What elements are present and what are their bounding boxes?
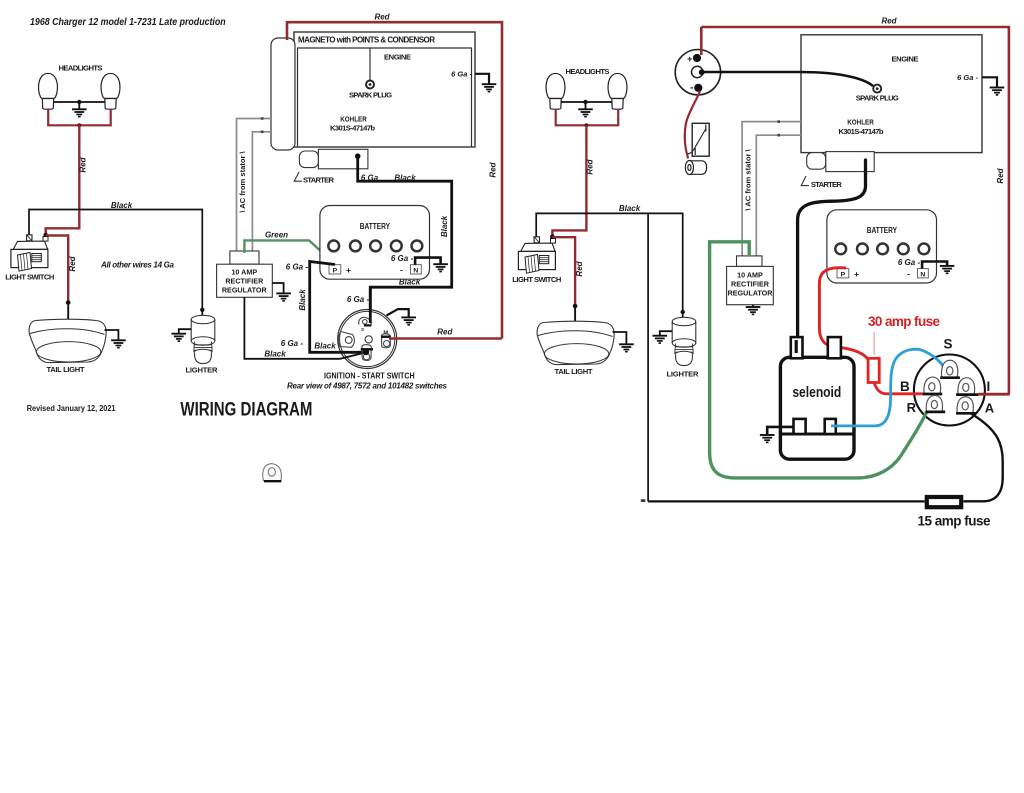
svg-text:6 Ga -: 6 Ga - [347,295,370,304]
wire red light switch to tail light [46,236,68,303]
svg-text:\ AC from stator \: \ AC from stator \ [744,148,753,210]
wire green stator to battery [244,240,334,263]
ground ignition top right [387,309,409,317]
node light switch red terminal [43,233,48,238]
ground rectifier right [752,305,754,307]
headlight bulb left right-diagram [546,73,565,109]
svg-text:\ AC from stator \: \ AC from stator \ [238,150,247,212]
key switch S terminal [942,360,958,377]
svg-text:6 Ga -: 6 Ga - [281,339,304,348]
svg-text:6 Ga: 6 Ga [361,174,379,183]
svg-text:STARTER: STARTER [303,176,335,185]
node stator dots [261,117,264,120]
svg-text:Revised January 12, 2021: Revised January 12, 2021 [27,403,116,413]
ground solenoid [767,427,793,434]
svg-text:6 Ga -: 6 Ga - [451,69,472,78]
svg-text:Red: Red [586,158,595,174]
ignition switch circle [338,310,397,369]
battery N terminal [410,265,421,274]
svg-text:Red: Red [79,156,88,172]
key switch I terminal [958,378,975,395]
wire red light switch to tail light right [552,237,575,305]
spark plug symbol [366,81,374,89]
wire battery N ground [415,258,441,265]
starter pointer tick [294,172,302,181]
svg-text:TAIL LIGHT: TAIL LIGHT [47,365,85,374]
node starter wire [355,153,361,159]
light switch body right [518,237,555,273]
tail light body right [537,321,614,364]
wire red top right-diagram [701,27,1009,394]
node red junction right [584,123,588,127]
headlight bulb right right-diagram [608,73,627,109]
battery P terminal [329,265,341,274]
svg-text:Red: Red [374,13,390,22]
wire red headlight loop [48,109,110,126]
svg-text:SPARK PLUG: SPARK PLUG [856,93,899,102]
svg-text:Black: Black [394,174,416,183]
ground headlights [78,102,80,109]
wire green end at R [902,412,927,454]
svg-text:WIRING DIAGRAM: WIRING DIAGRAM [180,398,312,420]
svg-text:6 Ga -: 6 Ga - [391,254,414,263]
ground engine right [475,74,489,84]
ignition S terminal [359,317,371,324]
solenoid bottom tab right [825,419,836,434]
ground lighter [179,329,191,333]
key switch circle [914,355,985,426]
svg-text:Red: Red [575,260,584,276]
svg-text:STARTER: STARTER [811,180,843,189]
tail light body [29,319,106,362]
key switch R terminal [926,395,942,411]
node tail light wire junction [66,300,71,305]
svg-text:selenoid: selenoid [792,384,841,400]
ammeter center hole [692,66,703,77]
svg-text:A: A [985,401,995,416]
wire black 6ga into S [369,287,372,323]
key switch A terminal [957,397,973,413]
light switch body [11,235,48,271]
svg-text:IGNITION - START SWITCH: IGNITION - START SWITCH [324,371,415,381]
svg-text:MAGNETO with POINTS & CONDENSO: MAGNETO with POINTS & CONDENSOR [298,35,435,44]
svg-text:ENGINE: ENGINE [892,55,919,64]
wire black 6ga engine to ignition S [358,156,452,317]
solenoid post left [791,337,803,358]
headlight bulb left [39,73,58,109]
svg-text:HEADLIGHTS: HEADLIGHTS [59,63,103,72]
svg-text:1968 Charger 12 model 1-7231 L: 1968 Charger 12 model 1-7231 Late produc… [30,16,226,28]
node red junction [77,123,81,127]
svg-text:LIGHT SWITCH: LIGHT SWITCH [512,275,561,284]
svg-text:N: N [413,268,418,275]
svg-text:Rear view of 4987, 7572 and 10: Rear view of 4987, 7572 and 101482 switc… [287,381,448,390]
svg-text:P: P [333,268,338,275]
wire black rectifier to ignition B [244,297,366,359]
svg-text:I: I [987,379,991,394]
starter box [318,149,368,169]
rectifier regulator box [217,264,273,297]
svg-text:Black: Black [298,289,307,311]
svg-text:K301S-47147b: K301S-47147b [839,127,884,136]
ground rectifier [272,283,283,293]
starter box right [826,152,874,172]
wire lighter feed right [682,312,684,317]
battery cell circles [328,241,422,252]
node headlight ground junction [77,100,81,104]
svg-text:B: B [900,379,910,394]
starter pointer tick right [801,176,809,186]
ignition B terminal [362,345,371,361]
svg-text:S: S [361,327,364,332]
svg-text:S: S [943,337,952,352]
node headlight ground junction right [583,100,587,104]
node light switch red terminal right [550,234,555,239]
svg-text:30 amp fuse: 30 amp fuse [868,314,940,329]
svg-text:Red: Red [881,17,897,26]
svg-text:BATTERY: BATTERY [867,225,897,235]
fuse holder cylinder [685,161,706,175]
wire red headlight loop right [556,109,619,126]
lighter body right [672,317,696,365]
svg-text:Black: Black [440,215,449,237]
svg-text:6 Ga -: 6 Ga - [957,73,978,82]
svg-text:10 AMP: 10 AMP [737,271,763,280]
wire red feed into ammeter [700,27,703,55]
rectifier cap [230,251,259,264]
svg-text:REGULATOR: REGULATOR [222,286,268,295]
svg-text:6 Ga -: 6 Ga - [286,263,309,272]
wire AC from stator line1 right [742,122,801,256]
wire red solenoid post to 30A fuse [836,347,868,360]
spark plug symbol right [873,85,881,93]
wire black to tail light right [574,306,576,322]
wire red ignition M [389,337,502,340]
svg-text:-: - [400,265,403,275]
solenoid bottom tab left [794,419,806,434]
svg-text:Red: Red [996,167,1005,183]
wire black drop to fuse return [647,213,649,501]
svg-text:+: + [854,269,859,279]
rectifier regulator box right [727,266,774,304]
svg-text:HEADLIGHTS: HEADLIGHTS [566,67,610,76]
wire lighter feed [201,310,203,315]
wire AC from stator line2 [252,132,271,252]
svg-text:Black: Black [264,350,286,359]
battery box [320,206,430,280]
solenoid box [780,357,854,459]
lighter body [191,315,215,363]
svg-text:+: + [687,54,693,65]
engine inner box [298,48,472,147]
node lighter junction [200,308,204,312]
rectifier cap right [737,256,763,267]
wire black to tail light [67,303,69,321]
wire black key switch A to 15A fuse [964,414,1003,502]
wire black headlights right [561,101,612,103]
wire maroon key switch I to red feed [978,393,1009,396]
svg-text:15 amp fuse: 15 amp fuse [918,514,991,529]
ground headlights right [585,102,587,109]
svg-text:R: R [907,400,917,415]
magneto flywheel rounded box [271,38,295,150]
solenoid post right [828,337,841,358]
svg-text:ENGINE: ENGINE [384,53,411,62]
node ignition B junction [361,348,373,350]
wire black into solenoid post [795,340,798,353]
svg-text:P: P [841,271,846,278]
starter small cap [299,151,318,168]
node tail light wire junction right [573,304,578,309]
svg-text:SPARK PLUG: SPARK PLUG [349,90,392,99]
wire spark plug lead [369,48,371,81]
svg-text:Black: Black [619,204,641,213]
battery P terminal right [837,269,849,278]
node fuse return tick [641,499,646,502]
svg-text:Green: Green [265,230,288,239]
wire red top feed [287,22,502,338]
wire black 15A fuse return [648,500,925,502]
svg-text:RECTIFIER: RECTIFIER [225,277,264,286]
ammeter circle [675,49,720,94]
wire black ammeter to spark plug [704,72,874,86]
starter small cap right [807,153,826,170]
svg-text:6 Ga -: 6 Ga - [898,258,921,267]
svg-text:-: - [690,83,693,94]
svg-text:LIGHTER: LIGHTER [186,366,219,375]
wire maroon ammeter to fuse holder [685,91,700,159]
fuse symbol rectangle [692,123,709,156]
wire black light switch to lighter [29,210,202,310]
key switch B terminal [924,377,941,394]
wire blue solenoid to key switch S [831,349,946,426]
ground tail light [105,330,119,340]
wire black headlights [54,101,105,103]
wire red battery P to solenoid post [819,268,846,347]
svg-text:Red: Red [68,255,77,271]
ground lighter right [660,331,672,335]
battery N terminal right [917,269,928,278]
spare terminal tab icon [263,464,282,481]
wire black starter to solenoid [798,160,866,352]
svg-text:LIGHT SWITCH: LIGHT SWITCH [5,272,54,281]
ground battery N right [940,266,955,273]
fuse 15 amp rectangle [927,497,961,507]
svg-text:REGULATOR: REGULATOR [728,289,774,298]
wire black light switch to lighter right [536,213,683,311]
svg-text:-: - [907,269,910,279]
fuse 30 amp rectangle [868,358,879,382]
engine box right [801,35,982,153]
svg-text:K301S-47147b: K301S-47147b [330,124,375,133]
node stator dots right [777,120,780,123]
battery cell circles right [835,244,929,255]
svg-text:KOHLER: KOHLER [847,119,874,127]
svg-text:Red: Red [437,327,453,336]
ground engine right-diagram [982,77,997,87]
svg-text:+: + [346,265,351,275]
solenoid base line [780,433,854,436]
svg-text:10 AMP: 10 AMP [231,268,257,277]
headlight bulb right [101,73,120,109]
svg-text:Black: Black [111,201,133,210]
wire AC from stator line2 right [756,135,801,255]
wire green rectifier to key switch R [710,242,902,478]
battery box right [827,210,937,283]
ground battery N [433,264,448,271]
wire battery N ground right [922,262,947,269]
svg-text:BATTERY: BATTERY [360,221,390,231]
engine outer box MAGNETO [294,32,475,147]
svg-text:N: N [920,271,925,278]
node lighter junction right [681,310,685,314]
svg-text:All other wires 14 Ga: All other wires 14 Ga [100,261,175,270]
ground tail light right [613,332,627,344]
ignition left terminal [339,332,355,348]
svg-text:Red: Red [489,161,498,177]
wire red 30A fuse to key switch B [874,383,923,394]
wire black battery P to ignition B [310,262,365,353]
svg-text:TAIL LIGHT: TAIL LIGHT [555,367,593,376]
svg-text:RECTIFIER: RECTIFIER [731,280,770,289]
ignition center hole [365,336,372,343]
wire red headlights to light switch right [552,125,586,236]
svg-text:Black: Black [314,342,336,351]
wire red headlights to light switch [46,125,80,235]
pointer line 30 amp fuse [873,332,875,355]
wire AC from stator line1 [237,119,272,252]
svg-text:LIGHTER: LIGHTER [667,370,700,379]
